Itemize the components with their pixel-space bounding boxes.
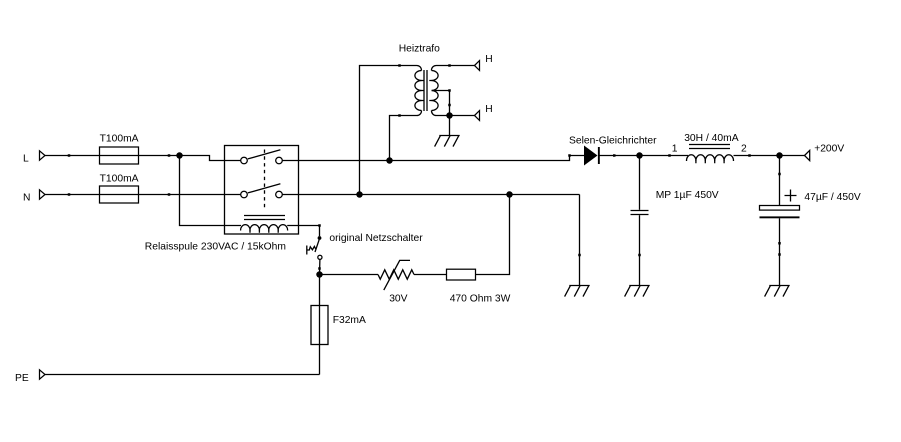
svg-text:Heiztrafo: Heiztrafo	[399, 44, 440, 55]
fuse F1 T100mA body	[100, 147, 139, 164]
node junction on L row	[176, 152, 183, 159]
relay K1 lever 1	[248, 150, 281, 159]
terminal L	[40, 151, 46, 160]
diode D1 pin square right	[613, 154, 616, 157]
terminal H top	[475, 61, 480, 71]
relay K1 contact 2 left	[241, 191, 248, 198]
transformer TR1 core	[423, 70, 425, 111]
wire PE row	[45, 374, 320, 376]
ground symbol under trafo tap	[435, 136, 460, 147]
wire down to MP capacitor	[639, 156, 641, 210]
fuse F2 pin 2	[168, 193, 171, 196]
svg-text:2: 2	[741, 143, 747, 154]
relay K1 lever 2	[248, 184, 281, 193]
wire trafo secondary bottom lead to H	[431, 111, 474, 116]
fuse F3 F32mA body	[311, 306, 328, 345]
ground symbol under 47uF cap	[765, 286, 790, 297]
wire junction to varistor	[320, 274, 379, 276]
switch S1 lever	[315, 240, 319, 252]
transformer TR1 primary cusp stems	[421, 81, 424, 101]
wire relay coil output to switch	[299, 226, 320, 237]
relay K1 coil cusp stems	[250, 230, 278, 233]
capacitor C1 MP plates	[631, 210, 649, 212]
inductor L1 pin 2	[748, 154, 751, 157]
relay K1 coil	[225, 225, 299, 231]
fuse F1 pin 1	[68, 154, 71, 157]
node junction tap and bottom lead	[446, 112, 453, 119]
wire trafo secondary top lead to H	[431, 65, 474, 70]
fuse F1 pin 2	[168, 154, 171, 157]
wire 47uF capacitor to ground	[779, 218, 781, 285]
wire junction down through fuse F3 to PE row	[319, 275, 321, 375]
svg-text:F32mA: F32mA	[333, 315, 366, 326]
terminal +200V	[805, 150, 810, 160]
relay K1 box	[225, 146, 299, 235]
wire relay row2 output	[282, 194, 579, 196]
svg-text:47µF / 450V: 47µF / 450V	[804, 192, 860, 203]
switch S1 bottom contact	[318, 255, 322, 259]
terminal H bottom	[475, 111, 480, 121]
svg-text:Relaisspule 230VAC / 15kOhm: Relaisspule 230VAC / 15kOhm	[145, 242, 286, 253]
svg-text:original Netzschalter: original Netzschalter	[329, 233, 423, 244]
wire resistor up to N row	[476, 195, 510, 275]
svg-text:N: N	[23, 193, 30, 204]
transformer TR1 primary winding	[415, 71, 422, 111]
trafo primary pin square bottom	[398, 114, 401, 117]
relay K1 core lines	[244, 215, 285, 217]
wire trafo primary bottom lead	[390, 111, 422, 161]
wire down to 47uF capacitor	[779, 156, 781, 206]
relay K1 contact 2 right	[276, 191, 283, 198]
svg-text:L: L	[23, 154, 29, 165]
diode D1 pin square left	[568, 154, 571, 157]
svg-text:+200V: +200V	[814, 144, 844, 155]
relay K1 linkage dashed line	[264, 150, 266, 210]
svg-text:30V: 30V	[389, 293, 407, 304]
svg-text:MP 1µF 450V: MP 1µF 450V	[656, 190, 719, 201]
capacitor C2 plus sign	[785, 190, 797, 202]
trafo primary pin square top	[398, 64, 401, 67]
wire diode to inductor	[599, 155, 688, 157]
ground pin square	[578, 254, 581, 257]
svg-text:PE: PE	[15, 373, 29, 384]
ground symbol under N switched wire	[565, 286, 590, 297]
node junction main row at 47uF cap	[776, 152, 783, 159]
relay K1 contact 1 right	[276, 157, 283, 164]
node junction trafo primary top to N row	[356, 191, 363, 198]
varistor R1 strike line	[384, 260, 410, 290]
varistor R1 30V zigzag	[378, 270, 414, 279]
wire trafo center tap	[432, 91, 450, 136]
svg-text:H: H	[485, 104, 492, 115]
inductor L1 core lines	[689, 144, 730, 146]
diode D1 cathode bar	[598, 147, 600, 164]
diode D1 triangle	[584, 146, 598, 166]
ground symbol under MP cap	[625, 286, 650, 297]
wire trafo primary top lead from N vertical	[360, 65, 422, 194]
switch S1 original Netzschalter top contact	[318, 236, 322, 240]
wire L from terminal through jog into relay	[45, 156, 241, 161]
wire switch to junction	[319, 259, 321, 274]
svg-text:Selen-Gleichrichter: Selen-Gleichrichter	[569, 135, 657, 146]
wire N row down to chassis ground	[579, 195, 581, 286]
svg-text:H: H	[485, 54, 492, 65]
transformer TR1 secondary winding	[432, 71, 439, 111]
inductor L1 winding	[686, 155, 733, 161]
svg-text:1: 1	[672, 143, 678, 154]
fuse F2 pin 1	[68, 193, 71, 196]
wire from L junction down to relay coil	[180, 156, 225, 226]
resistor R2 470 Ohm 3W	[447, 269, 476, 280]
node junction resistor branch on N row	[506, 191, 513, 198]
relay K1 contact 1 left	[241, 157, 248, 164]
wire varistor to resistor	[414, 274, 447, 276]
wire relay row1 output to diode jog	[282, 156, 584, 161]
transformer TR1 secondary cusp stems	[429, 81, 432, 101]
inductor L1 pin 1	[668, 154, 671, 157]
capacitor C2 bottom plate	[760, 216, 800, 218]
svg-text:30H / 40mA: 30H / 40mA	[684, 133, 739, 144]
node junction main row at MP cap	[636, 152, 643, 159]
node junction trafo primary bottom to row1	[386, 157, 393, 164]
wire N from terminal to relay	[45, 194, 241, 196]
svg-text:T100mA: T100mA	[100, 134, 139, 145]
terminal N	[40, 190, 46, 199]
wire MP capacitor to ground	[639, 215, 641, 285]
svg-text:470 Ohm 3W: 470 Ohm 3W	[450, 293, 511, 304]
capacitor C2 top plate	[760, 206, 800, 211]
svg-text:T100mA: T100mA	[100, 174, 139, 185]
node junction below switch	[316, 271, 323, 278]
fuse F2 T100mA body	[100, 186, 139, 203]
switch S1 actuator	[307, 246, 316, 255]
terminal PE	[40, 370, 46, 379]
wire inductor to output junction	[734, 155, 805, 157]
